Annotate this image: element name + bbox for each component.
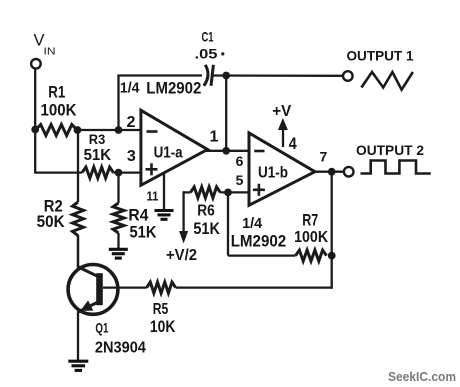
junction R3 right (115, 169, 123, 177)
svg-text:2: 2 (127, 114, 136, 131)
svg-text:6: 6 (236, 153, 244, 169)
svg-text:50K: 50K (37, 212, 66, 231)
svg-text:R5: R5 (153, 301, 169, 318)
U1-b minus input sign (254, 150, 264, 153)
svg-text:1: 1 (210, 129, 219, 146)
svg-text:51K: 51K (84, 147, 112, 164)
Q1 collector stroke (78, 267, 97, 276)
svg-text:1/4: 1/4 (242, 215, 263, 232)
wire top row left of C1 (117, 74, 202, 76)
svg-text:7: 7 (320, 149, 328, 165)
capacitor C1 (204, 65, 208, 86)
resistor R2 (73, 202, 84, 236)
wire R4 to ground (117, 233, 119, 249)
U1-b plus input sign (253, 189, 265, 192)
junction R1 left (31, 126, 39, 134)
ground under R4 (109, 248, 128, 251)
junction after C1 (222, 72, 230, 80)
svg-text:U1-b: U1-b (258, 165, 288, 182)
svg-text:1/4: 1/4 (120, 80, 140, 97)
wire R5 to Q1 base (103, 286, 147, 288)
wire emitter down (77, 312, 79, 361)
junction output2 (328, 168, 336, 176)
svg-text:5: 5 (236, 172, 244, 188)
svg-text:10K: 10K (150, 318, 176, 336)
junction R7 right (328, 252, 336, 260)
resistor R3 (82, 167, 114, 178)
junction pin1 node (222, 147, 230, 155)
svg-text:R6: R6 (197, 203, 215, 220)
wire R1 to pin2 (77, 129, 142, 131)
svg-text:51K: 51K (193, 220, 220, 238)
resistor R4 (113, 203, 124, 233)
svg-text:4: 4 (289, 135, 298, 153)
waveform square wave (361, 161, 431, 174)
power +V arrow (282, 127, 284, 147)
wire R3 to pin3 (114, 171, 143, 173)
node +V/2 arrow (182, 191, 184, 235)
svg-text:LM2902: LM2902 (231, 232, 287, 251)
wire VIN down (34, 69, 36, 130)
junction pin2 node (115, 126, 123, 134)
wire R7 row left (228, 254, 296, 256)
svg-text:LM2902: LM2902 (146, 78, 201, 97)
resistor R5 (147, 282, 176, 293)
Q1 emitter arrowhead (80, 300, 93, 311)
svg-text:R7: R7 (302, 211, 318, 229)
svg-text:OUTPUT 2: OUTPUT 2 (356, 142, 424, 158)
svg-text:3: 3 (127, 148, 136, 165)
svg-text:OUTPUT 1: OUTPUT 1 (347, 48, 414, 64)
resistor R1 (36, 125, 78, 136)
resistor R6 (191, 187, 221, 198)
wire C1 junction down to pin1 node (225, 76, 227, 151)
svg-text:100K: 100K (294, 229, 329, 246)
wire pin1 to pin6 (206, 150, 250, 152)
svg-text:100K: 100K (41, 101, 78, 120)
wire R4 column top (117, 173, 119, 203)
waveform triangle wave (361, 72, 413, 90)
junction R1 right (74, 126, 82, 134)
svg-text:C1: C1 (202, 29, 214, 44)
wire pin 11 (163, 173, 165, 210)
wire pin7 to terminal (313, 171, 344, 173)
svg-text:51K: 51K (130, 222, 158, 241)
op-amp U1-b (249, 133, 315, 205)
svg-text:U1-a: U1-a (154, 144, 183, 161)
svg-text:IN: IN (44, 46, 56, 58)
svg-text:Q1: Q1 (95, 321, 108, 336)
transistor Q1 (68, 265, 118, 315)
wire R6 to pin5 (220, 191, 249, 193)
svg-text:+V/2: +V/2 (166, 247, 197, 264)
ground Q1 emitter (68, 360, 88, 363)
wire pin5 down to R7 row (227, 192, 229, 255)
U1-a plus input sign (146, 168, 158, 171)
wire bottom row right (176, 286, 333, 288)
ground pin 11 (155, 209, 174, 212)
svg-text:R3: R3 (89, 131, 106, 147)
Q1 emitter stroke (78, 303, 97, 313)
wire top row right of C1 (212, 74, 343, 77)
wire feedback vertical (117, 76, 119, 131)
wire output2 column down (331, 172, 333, 289)
terminal VIN (31, 59, 41, 69)
wire R2 to Q1 collector (77, 236, 79, 268)
wire VIN column down to R3 row (34, 129, 36, 173)
svg-text:11: 11 (147, 189, 159, 204)
svg-text:.05: .05 (195, 47, 219, 62)
op-amp U1-a (141, 110, 208, 185)
Q1 base bar (96, 273, 103, 305)
label VIN (34, 32, 56, 58)
wire +V2 corner to R6 (183, 191, 191, 193)
svg-text:R1: R1 (48, 83, 65, 102)
svg-text:SeekIC.com: SeekIC.com (388, 369, 456, 384)
svg-text:2N3904: 2N3904 (95, 340, 146, 357)
terminal OUTPUT 1 (343, 71, 353, 81)
terminal OUTPUT 2 (344, 167, 354, 177)
junction pin5 (224, 189, 232, 197)
resistor R7 (296, 250, 327, 261)
wire collector up to R2 (77, 235, 79, 269)
wire R2 column top (77, 130, 79, 202)
U1-a minus input sign (147, 130, 158, 133)
svg-text:+V: +V (272, 103, 291, 120)
